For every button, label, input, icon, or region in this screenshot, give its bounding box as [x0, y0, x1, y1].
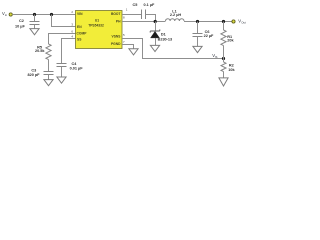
wire PH line: [122, 21, 166, 23]
node junction PH: [154, 20, 157, 23]
label D1 value: [158, 33, 173, 42]
svg-text:2.2 µH: 2.2 µH: [170, 13, 182, 17]
terminal Vin: [9, 13, 12, 16]
svg-text:22 µF: 22 µF: [204, 34, 214, 38]
svg-text:0.01 µF: 0.01 µF: [70, 67, 84, 71]
svg-text:PH: PH: [116, 20, 121, 24]
resistor R1: [221, 30, 226, 46]
svg-text:TPS54332: TPS54332: [88, 24, 104, 28]
svg-text:COMP: COMP: [77, 32, 88, 36]
diode D1: [150, 22, 160, 46]
node junction Vfb: [222, 57, 225, 60]
wire output rail: [184, 21, 232, 23]
svg-text:C3: C3: [31, 69, 36, 73]
node junction C2: [33, 13, 36, 16]
node junction C6: [196, 20, 199, 23]
wire EN drop: [52, 15, 76, 27]
wire R1 bottom: [223, 46, 225, 59]
svg-text:BOOT: BOOT: [111, 12, 121, 16]
wire R5 to C3: [48, 60, 50, 72]
svg-text:820 pF: 820 pF: [27, 73, 40, 77]
capacitor C3: [44, 71, 54, 73]
wire C2 stem: [34, 15, 36, 22]
ground C6: [193, 46, 202, 52]
wire R1 top: [223, 22, 225, 31]
resistor R5: [46, 44, 51, 60]
ground PGND: [129, 49, 138, 55]
label C5 value: [133, 3, 156, 7]
label C6 value: [204, 30, 214, 38]
label R2 value: [228, 64, 235, 72]
node junction R1: [222, 20, 225, 23]
wire VSNS feedback: [122, 39, 224, 59]
wire R2 bottom: [223, 72, 225, 78]
svg-text:Out: Out: [241, 21, 246, 25]
label C3 value: [27, 69, 40, 78]
ground R2: [219, 78, 228, 86]
svg-text:VSNS: VSNS: [112, 35, 122, 39]
label L1 value: [170, 10, 182, 17]
svg-text:20k: 20k: [227, 39, 234, 43]
svg-text:0.1 µF: 0.1 µF: [144, 3, 156, 7]
wire C6 stem: [197, 22, 199, 34]
svg-text:U1: U1: [95, 18, 99, 22]
IC U1 body: [76, 11, 123, 49]
label R5 value: [35, 46, 45, 54]
ground C4: [57, 77, 66, 83]
svg-text:10k: 10k: [228, 68, 235, 72]
resistor R2: [221, 62, 226, 72]
node Vfb label: [212, 53, 218, 59]
svg-text:D1: D1: [161, 33, 166, 37]
capacitor C5: [141, 10, 143, 20]
ground C3: [44, 80, 53, 86]
node junction EN: [50, 13, 53, 16]
inductor L1: [166, 19, 184, 21]
node Vin label: [2, 11, 8, 17]
svg-text:20.5k: 20.5k: [35, 49, 45, 53]
wire COMP: [49, 34, 76, 45]
terminal Vout: [232, 20, 235, 23]
svg-text:C2: C2: [19, 19, 24, 23]
svg-text:VIN: VIN: [77, 12, 83, 16]
wire PGND: [122, 45, 134, 49]
ground C2: [30, 29, 39, 35]
label R1 value: [227, 35, 234, 43]
wire R2 top: [223, 59, 225, 63]
svg-text:B230-13: B230-13: [158, 37, 173, 41]
node Vout label: [238, 19, 246, 25]
wire top rail: [13, 14, 76, 16]
svg-text:PGND: PGND: [111, 42, 121, 46]
wire C5 to PH node: [146, 15, 156, 22]
svg-text:10 µF: 10 µF: [15, 25, 25, 29]
wire BOOT: [122, 14, 142, 16]
capacitor C6: [193, 33, 203, 35]
label C4 value: [70, 62, 84, 71]
label C2 value: [15, 19, 25, 29]
capacitor C2: [30, 21, 40, 23]
svg-text:EN: EN: [77, 25, 82, 29]
ground D1: [150, 45, 159, 51]
capacitor C4: [57, 63, 67, 65]
wire SS: [62, 39, 76, 64]
svg-text:C5: C5: [133, 3, 138, 7]
